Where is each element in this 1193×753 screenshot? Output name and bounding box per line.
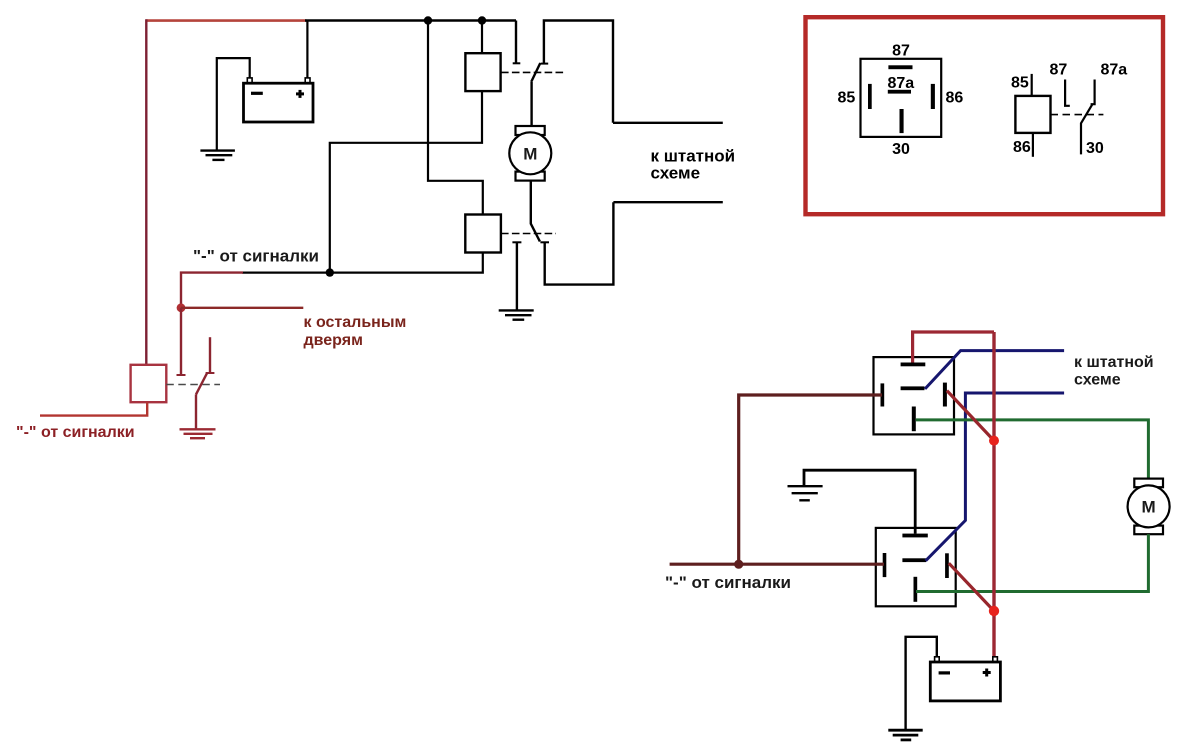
battery B2 bbox=[930, 657, 1000, 701]
svg-text:30: 30 bbox=[1086, 140, 1104, 157]
wire battery minus to ground bbox=[217, 58, 250, 150]
switch S3 contact right stub bbox=[209, 337, 211, 374]
wire blue 87a R1 to stock bbox=[925, 351, 1064, 389]
svg-text:к остальным: к остальным bbox=[304, 314, 407, 331]
dashed link K1-S1 bbox=[501, 71, 564, 73]
switch S2 contact left stub to ground bbox=[516, 242, 518, 309]
switch S1 contact ticks bbox=[513, 62, 521, 64]
svg-text:"-" от сигналки: "-" от сигналки bbox=[193, 247, 319, 266]
R1 pin top bar bbox=[901, 363, 926, 367]
switch S3 contact left stub bbox=[180, 308, 182, 375]
wire battery plus to bus bbox=[306, 21, 308, 79]
relay coil K2 bbox=[465, 215, 501, 253]
pin 86 bar bbox=[931, 84, 935, 109]
switch S1 blade bbox=[531, 63, 540, 82]
R2 pin left bar bbox=[883, 553, 887, 577]
wire black ground branch bbox=[804, 470, 915, 533]
wire to other doors bbox=[181, 307, 303, 309]
node red dot 1 bbox=[989, 436, 999, 446]
panel red frame bbox=[806, 17, 1164, 214]
wire bus junction A down to K2 top bbox=[428, 21, 483, 215]
node junction dot A bbox=[424, 16, 432, 24]
pin 85 bar bbox=[868, 84, 872, 109]
pin 87a bar bbox=[888, 90, 911, 94]
wire K3 bottom lead bbox=[40, 402, 147, 415]
wire maroon R1 87 to riser bbox=[913, 332, 994, 363]
wire bus to K1 top bbox=[481, 21, 483, 54]
wire maroon branch to R1 bbox=[739, 395, 882, 564]
svg-text:дверям: дверям bbox=[304, 332, 363, 349]
R2 pin mid bar bbox=[902, 558, 926, 562]
R1 pin bottom bar bbox=[912, 407, 916, 432]
wire blue 87a R2 to stock bbox=[926, 393, 1065, 561]
svg-text:85: 85 bbox=[838, 90, 856, 107]
svg-text:M: M bbox=[1142, 498, 1156, 517]
wire red stub of signal line bbox=[181, 273, 243, 308]
wire lead to stock wiring top bbox=[613, 122, 723, 124]
dashed link coil-contact bbox=[1051, 114, 1104, 116]
node junction dot C bbox=[326, 268, 334, 276]
wire green motor loop bbox=[916, 420, 1149, 479]
switch S2 contact right stub bbox=[545, 202, 614, 284]
R2 pin bottom bar bbox=[914, 577, 918, 602]
wire S3 to ground bbox=[195, 394, 197, 428]
battery B1 bbox=[244, 78, 314, 122]
dashed link K2-S2 bbox=[501, 233, 556, 235]
switch S3 blade bbox=[196, 373, 207, 394]
relay socket R1 bbox=[874, 357, 955, 434]
svg-text:M: M bbox=[523, 145, 537, 164]
motor M2 bbox=[1128, 479, 1170, 535]
ground G2 bbox=[499, 310, 534, 319]
motor M1 bbox=[509, 82, 551, 224]
relay coil K1 bbox=[465, 53, 500, 91]
svg-text:87а: 87а bbox=[888, 75, 915, 92]
svg-text:87а: 87а bbox=[1101, 62, 1128, 79]
R2 pin top bar bbox=[902, 534, 927, 538]
ground G3 (red) bbox=[180, 429, 216, 438]
svg-text:схеме: схеме bbox=[1074, 372, 1121, 389]
node red dot 2 bbox=[989, 606, 999, 616]
pin 87a contact bbox=[1091, 80, 1095, 105]
switch S2 blade bbox=[531, 224, 540, 242]
svg-text:86: 86 bbox=[1013, 139, 1031, 156]
pin 85 lead bbox=[1031, 74, 1033, 96]
svg-text:"-" от сигналки: "-" от сигналки bbox=[665, 573, 791, 592]
R1 pin mid bar bbox=[901, 386, 925, 390]
relay coil (schematic) bbox=[1015, 96, 1050, 133]
svg-text:87: 87 bbox=[892, 43, 910, 60]
svg-text:85: 85 bbox=[1011, 75, 1029, 92]
node maroon junction dot bbox=[734, 560, 743, 569]
svg-text:схеме: схеме bbox=[651, 164, 701, 183]
wire red alarm vertical bbox=[145, 19, 147, 365]
wire K1 bottom to left branch bbox=[330, 91, 482, 273]
node red junction dot bbox=[177, 303, 186, 312]
ground G1 bbox=[200, 151, 235, 160]
pin 86 lead bbox=[1032, 133, 1034, 157]
wire battery B2 minus to ground bbox=[906, 637, 937, 729]
wire green motor return bbox=[916, 534, 1148, 591]
wire lead to stock wiring bottom bbox=[613, 201, 722, 203]
switch S2 contact ticks bbox=[512, 241, 521, 243]
relay socket R2 bbox=[876, 528, 956, 606]
R1 pin right bar bbox=[943, 383, 947, 407]
node junction dot B bbox=[478, 16, 486, 24]
pin 87 bar bbox=[888, 65, 912, 69]
blade 30 bbox=[1081, 105, 1092, 155]
relay socket square bbox=[861, 59, 942, 137]
svg-text:30: 30 bbox=[892, 141, 910, 158]
wire maroon alarm feed bbox=[670, 563, 884, 566]
relay coil K3 bbox=[131, 365, 167, 402]
svg-text:86: 86 bbox=[946, 90, 964, 107]
svg-text:"-" от сигналки: "-" от сигналки bbox=[16, 424, 135, 441]
switch S1 contact right stub bbox=[544, 21, 613, 123]
dashed link K3-S3 bbox=[166, 384, 220, 386]
R2 pin right bar bbox=[945, 553, 949, 578]
svg-text:к штатной: к штатной bbox=[1074, 354, 1154, 371]
wire black top bus bbox=[305, 19, 516, 22]
wire red feed top-left horizontal bbox=[146, 19, 306, 22]
switch S3 contact ticks bbox=[177, 374, 186, 376]
ground G4 bbox=[788, 486, 823, 500]
wire red battery riser bbox=[992, 332, 995, 657]
wire red diagonal R2 30 bbox=[949, 563, 994, 611]
pin 87 contact bbox=[1065, 80, 1070, 106]
ground G5 bbox=[888, 730, 922, 740]
switch S1 contact left stub bbox=[515, 21, 517, 64]
pin 30 bar bbox=[900, 109, 904, 133]
svg-text:87: 87 bbox=[1050, 62, 1068, 79]
R1 pin left bar bbox=[881, 383, 885, 406]
wire K2 bottom to signal line bbox=[242, 253, 483, 273]
wire red diagonal R1 30 bbox=[947, 391, 994, 441]
